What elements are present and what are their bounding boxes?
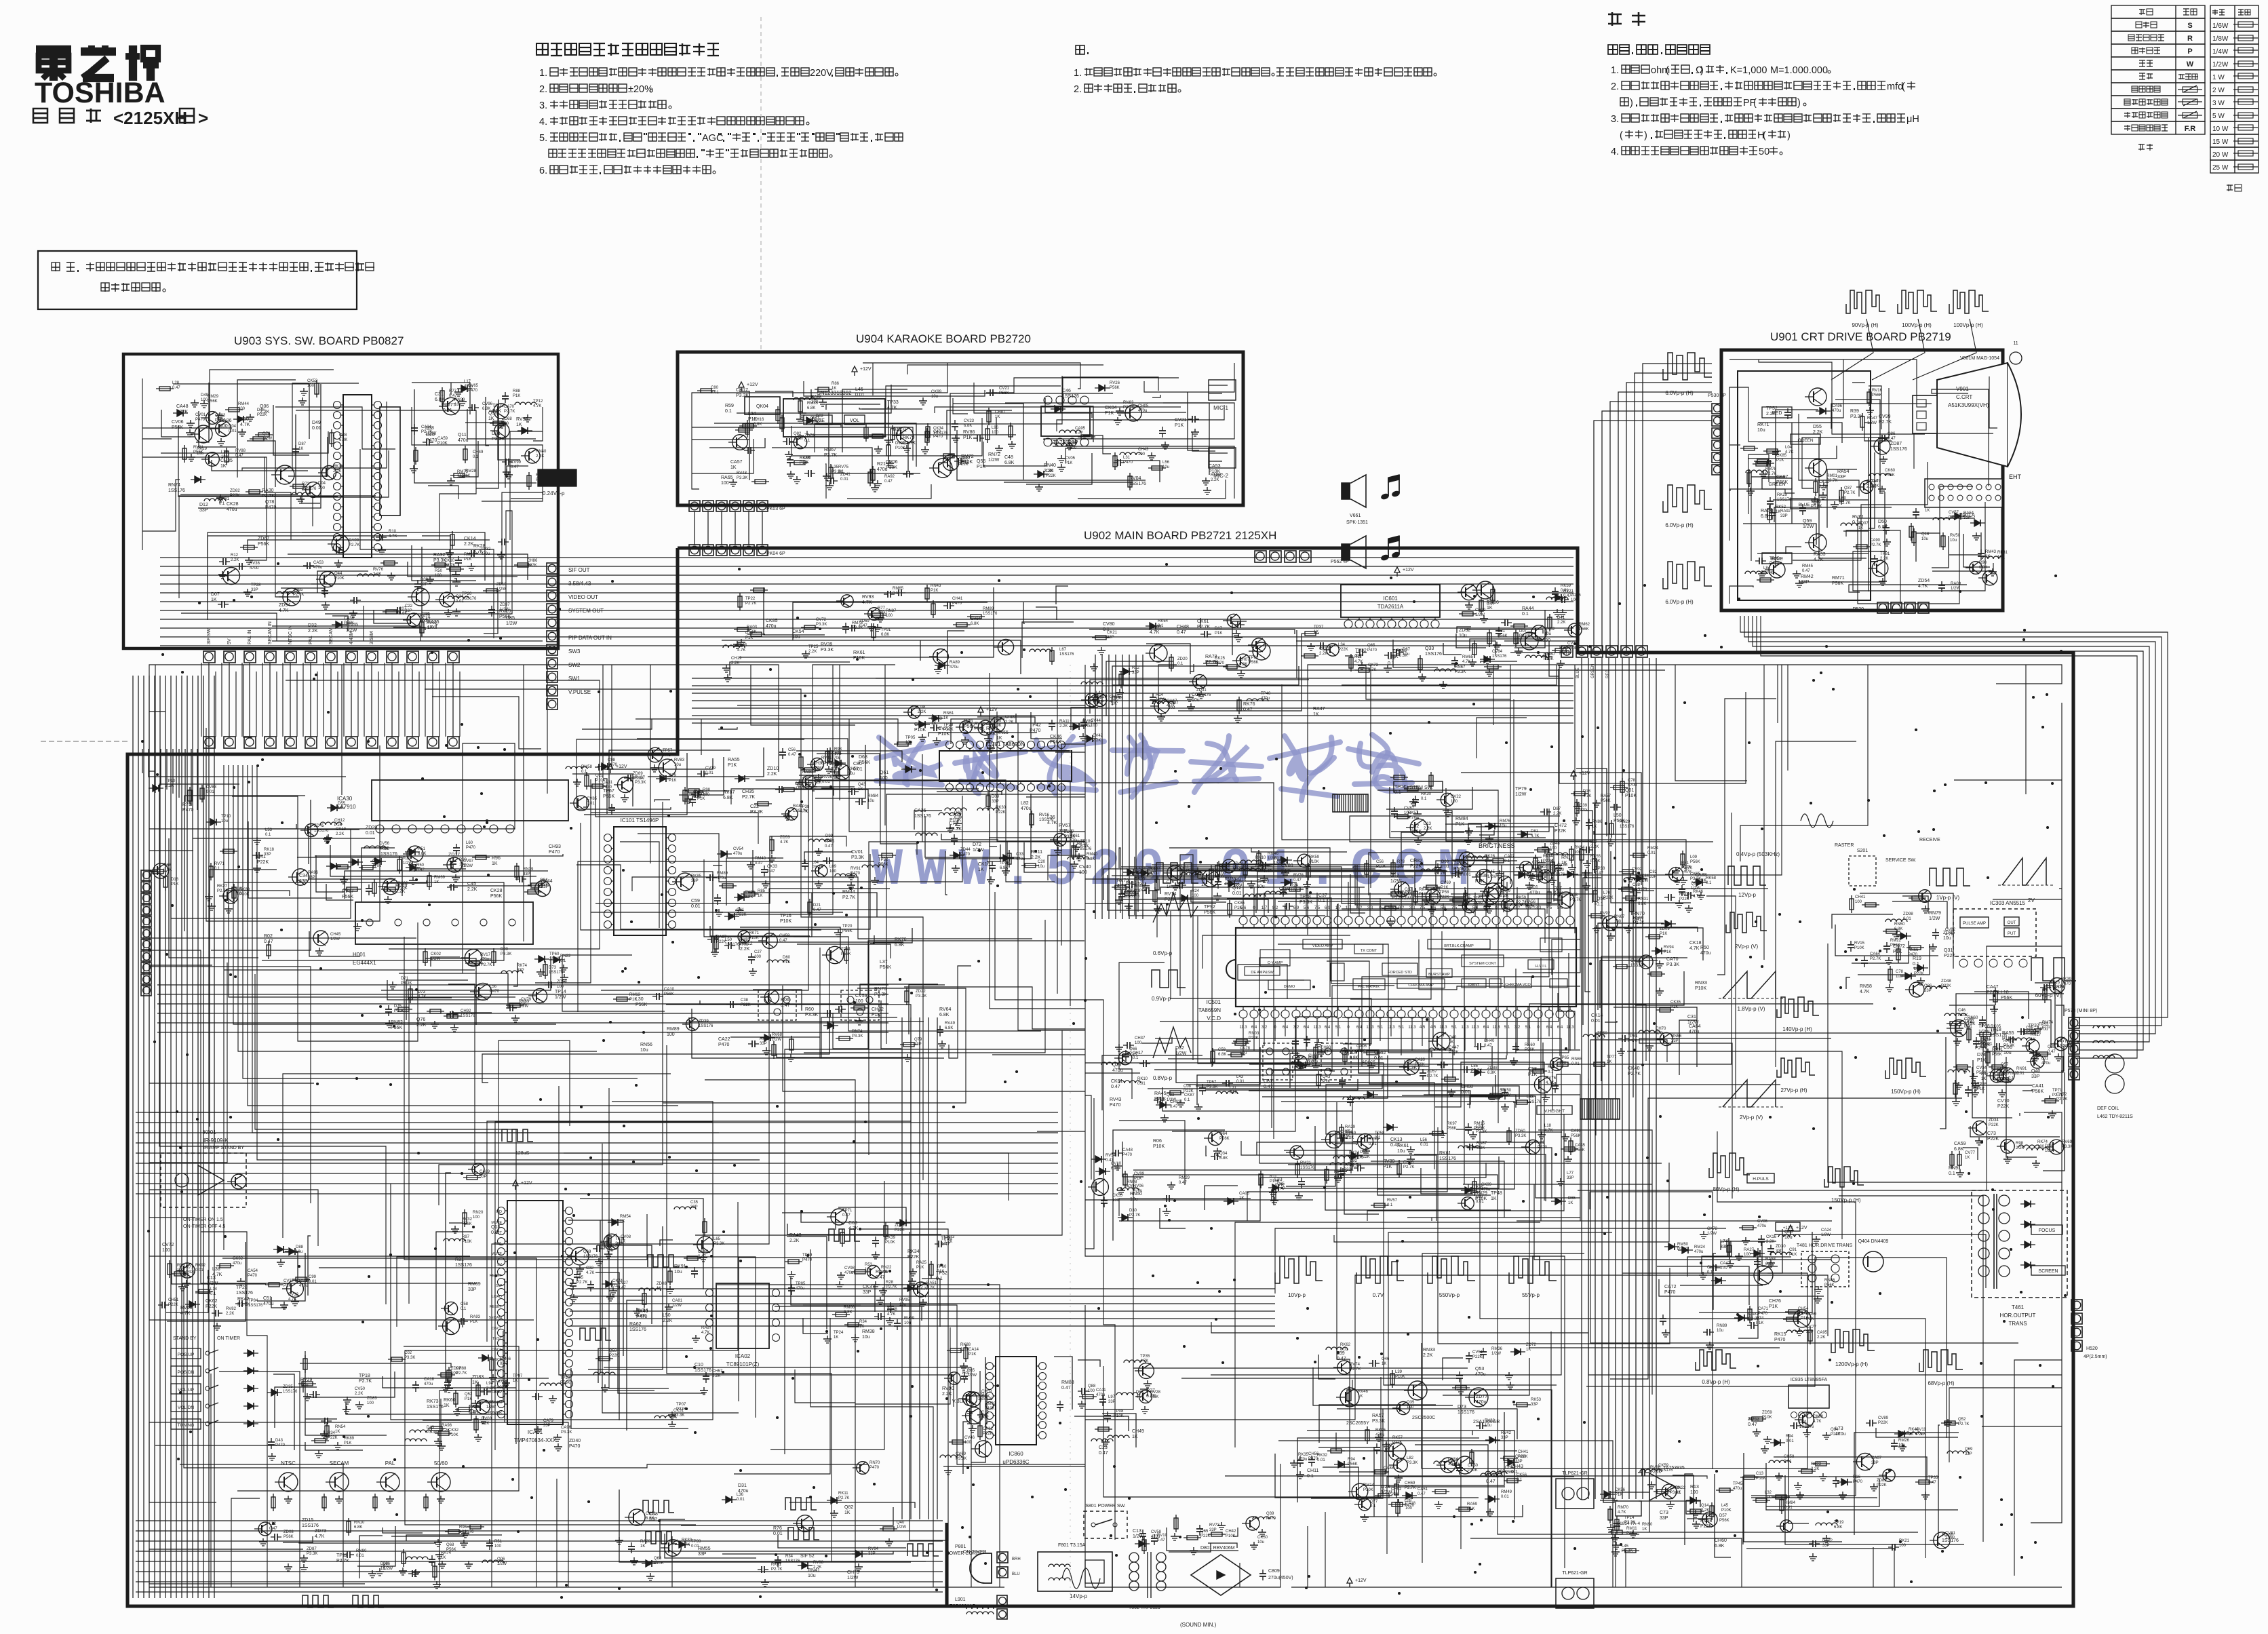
svg-text:RM38: RM38 xyxy=(862,1329,875,1334)
svg-text:P10K: P10K xyxy=(1695,986,1706,991)
svg-text:0.1: 0.1 xyxy=(1913,962,1919,967)
svg-text:100: 100 xyxy=(1496,891,1504,895)
svg-text:CA41: CA41 xyxy=(2032,1084,2044,1089)
svg-text:RN10: RN10 xyxy=(1255,856,1266,860)
svg-text:(: ( xyxy=(1620,130,1623,141)
svg-text:1SS176: 1SS176 xyxy=(1059,653,1074,657)
svg-text:TP99: TP99 xyxy=(691,1540,701,1544)
svg-text:33P: 33P xyxy=(468,1287,477,1292)
svg-text:RM69: RM69 xyxy=(468,1282,481,1287)
svg-text:CV22: CV22 xyxy=(1451,795,1462,799)
svg-text:Q23: Q23 xyxy=(1112,1063,1121,1068)
svg-text:14Vp-p: 14Vp-p xyxy=(1070,1593,1087,1599)
svg-text:33P: 33P xyxy=(1965,1452,1972,1456)
svg-text:ICV01 TA8690N: ICV01 TA8690N xyxy=(985,741,1025,747)
svg-text:L56: L56 xyxy=(490,985,497,989)
svg-text:P56K: P56K xyxy=(1992,1053,2002,1057)
svg-text:1/2W: 1/2W xyxy=(1167,1098,1176,1102)
svg-text:V661: V661 xyxy=(1350,513,1361,518)
svg-text:CA47: CA47 xyxy=(1987,985,1999,990)
svg-text:L45: L45 xyxy=(1622,1544,1629,1549)
svg-text:ZD59: ZD59 xyxy=(1762,1411,1772,1415)
svg-text:C46: C46 xyxy=(1062,389,1071,393)
svg-text:R11: R11 xyxy=(1270,1175,1277,1179)
svg-text:CK92: CK92 xyxy=(233,1257,243,1261)
svg-text:RV39: RV39 xyxy=(821,642,832,647)
svg-text:RN46: RN46 xyxy=(1824,1279,1835,1283)
svg-text:CA10: CA10 xyxy=(664,988,675,992)
svg-text:CA54: CA54 xyxy=(248,1269,258,1273)
svg-text:LOAD: LOAD xyxy=(492,1295,502,1299)
svg-text:Q57: Q57 xyxy=(2001,1063,2009,1067)
svg-text:P3.3K: P3.3K xyxy=(404,1356,415,1360)
svg-text:1SS176: 1SS176 xyxy=(699,1024,713,1028)
svg-text:L45: L45 xyxy=(1721,1504,1729,1508)
svg-text:0.1: 0.1 xyxy=(1177,662,1184,666)
svg-text:CV05: CV05 xyxy=(1065,456,1076,461)
svg-text:+12V: +12V xyxy=(747,383,758,387)
svg-text:CK28: CK28 xyxy=(227,502,239,507)
svg-text:RM36: RM36 xyxy=(1491,1347,1503,1351)
svg-text:0.47: 0.47 xyxy=(1417,1492,1426,1496)
svg-text:RN56: RN56 xyxy=(640,1043,652,1047)
svg-text:L94: L94 xyxy=(486,1382,494,1386)
svg-text:P56K: P56K xyxy=(1219,1137,1230,1141)
svg-text:33P: 33P xyxy=(691,879,699,883)
svg-text:TP14: TP14 xyxy=(1624,1516,1635,1520)
svg-text:P1K: P1K xyxy=(1893,950,1902,954)
svg-text:TP36: TP36 xyxy=(1000,861,1010,865)
svg-text:CV42: CV42 xyxy=(1093,734,1103,738)
svg-text:0.01: 0.01 xyxy=(229,429,237,433)
svg-text:CV72: CV72 xyxy=(162,1243,174,1247)
svg-text:P56K: P56K xyxy=(1579,627,1589,631)
svg-text:H.PULS: H.PULS xyxy=(1753,1177,1769,1182)
svg-text:1SS176: 1SS176 xyxy=(1300,1166,1315,1170)
svg-text:1/2W: 1/2W xyxy=(967,1374,977,1378)
svg-text:D18: D18 xyxy=(2045,1144,2053,1148)
svg-text:L39: L39 xyxy=(1395,1370,1403,1374)
svg-text:R06: R06 xyxy=(1153,1139,1162,1144)
svg-text:CV02: CV02 xyxy=(1632,868,1643,872)
svg-text:Q84: Q84 xyxy=(1831,1428,1839,1432)
svg-text:2.2K: 2.2K xyxy=(467,887,477,892)
svg-text:RN43: RN43 xyxy=(931,584,941,588)
svg-text:P1K: P1K xyxy=(1769,1304,1778,1309)
svg-text:1SS176: 1SS176 xyxy=(1890,447,1907,452)
svg-text:GREEN: GREEN xyxy=(1591,664,1595,678)
svg-text:D87: D87 xyxy=(298,442,307,446)
svg-text:27Vp-p (H): 27Vp-p (H) xyxy=(1780,1087,1807,1093)
svg-text:CH86: CH86 xyxy=(527,559,538,563)
svg-text:P10K: P10K xyxy=(1763,571,1774,575)
svg-text:SERVICE SW.: SERVICE SW. xyxy=(1885,858,1916,863)
svg-text:CH88: CH88 xyxy=(456,1367,467,1371)
svg-text:BURST AMP: BURST AMP xyxy=(1428,973,1450,977)
svg-text:CA59: CA59 xyxy=(437,437,448,441)
svg-text:P3.3K: P3.3K xyxy=(1811,505,1822,509)
svg-text:RV68: RV68 xyxy=(772,1033,783,1037)
svg-text:CK81: CK81 xyxy=(1111,1079,1123,1084)
svg-text:P22K: P22K xyxy=(257,860,269,865)
svg-text:RV15: RV15 xyxy=(1854,941,1865,946)
svg-text:CK13: CK13 xyxy=(1390,1137,1403,1142)
svg-text:0.01: 0.01 xyxy=(1441,865,1449,869)
svg-text:6.8K: 6.8K xyxy=(1004,461,1015,465)
svg-text:T481 HOR.DRIVE TRANS: T481 HOR.DRIVE TRANS xyxy=(1797,1243,1853,1248)
svg-text:RM58: RM58 xyxy=(581,765,593,769)
svg-text:RK27: RK27 xyxy=(217,884,228,889)
svg-text:+12V: +12V xyxy=(860,367,872,372)
svg-text:R12: R12 xyxy=(231,553,239,558)
svg-text:P1K: P1K xyxy=(931,589,938,593)
svg-text:): ) xyxy=(1700,65,1704,76)
svg-text:10u: 10u xyxy=(674,1270,682,1275)
svg-text:2.2K: 2.2K xyxy=(663,1319,673,1323)
svg-text:1 W: 1 W xyxy=(2212,74,2225,81)
svg-text:CA70: CA70 xyxy=(504,405,515,409)
svg-text:RN76: RN76 xyxy=(874,987,886,992)
svg-text:R53: R53 xyxy=(865,1263,873,1267)
svg-text:C36: C36 xyxy=(2003,1045,2012,1050)
svg-text:P1K: P1K xyxy=(1230,1091,1237,1095)
svg-text:RN89: RN89 xyxy=(1717,1324,1727,1328)
svg-text:RN74: RN74 xyxy=(852,1030,863,1034)
svg-text:1K: 1K xyxy=(640,1544,645,1549)
svg-text:Q06: Q06 xyxy=(260,404,269,409)
svg-text:TP68: TP68 xyxy=(1978,1024,1990,1029)
svg-text:0.47: 0.47 xyxy=(825,844,833,849)
svg-text:TP10: TP10 xyxy=(221,815,231,819)
svg-text:0.1: 0.1 xyxy=(1394,790,1401,795)
svg-text:P56K: P56K xyxy=(1249,661,1259,665)
svg-text:P3.3K: P3.3K xyxy=(736,393,749,398)
svg-text:1/2W: 1/2W xyxy=(897,1525,906,1530)
svg-text:100: 100 xyxy=(721,481,729,486)
svg-text:RA93: RA93 xyxy=(470,1315,481,1319)
svg-text:0.47: 0.47 xyxy=(1802,569,1810,573)
svg-text:D02: D02 xyxy=(954,811,962,815)
svg-text:2.2K: 2.2K xyxy=(2016,1146,2024,1150)
svg-text:1K: 1K xyxy=(943,716,948,720)
svg-text:1K: 1K xyxy=(1526,1348,1531,1352)
svg-text:R: R xyxy=(2187,35,2193,43)
svg-text:Q404 DN4409: Q404 DN4409 xyxy=(1858,1239,1889,1244)
svg-text:P3.3K: P3.3K xyxy=(851,855,864,860)
svg-text:1SS176: 1SS176 xyxy=(695,1368,711,1373)
svg-text:Q31: Q31 xyxy=(1944,948,1953,953)
svg-text:RA25: RA25 xyxy=(916,1261,927,1265)
svg-text:RED: RED xyxy=(1772,411,1782,416)
svg-text:P1K: P1K xyxy=(1660,932,1667,936)
svg-text:33P: 33P xyxy=(264,853,271,857)
svg-text:P530 6P: P530 6P xyxy=(1708,393,1726,398)
svg-text:RV94: RV94 xyxy=(1664,946,1675,950)
svg-text:CK16: CK16 xyxy=(1766,1235,1777,1239)
svg-text:100: 100 xyxy=(318,486,326,490)
svg-text:P56K: P56K xyxy=(842,929,853,933)
svg-text:TP40: TP40 xyxy=(1261,692,1271,696)
svg-text:CH42: CH42 xyxy=(1226,1530,1236,1534)
svg-text:0.47: 0.47 xyxy=(859,624,867,628)
svg-text:P3.3K: P3.3K xyxy=(1396,654,1407,658)
svg-text:4.7K: 4.7K xyxy=(1689,946,1700,951)
svg-text:P56K: P56K xyxy=(1505,1471,1515,1475)
svg-text:4.7K: 4.7K xyxy=(586,1271,594,1275)
svg-text:L901: L901 xyxy=(955,1597,966,1602)
svg-text:L82: L82 xyxy=(1407,1456,1414,1460)
svg-text:C38: C38 xyxy=(1632,883,1641,887)
svg-text:1/2W: 1/2W xyxy=(1821,1233,1831,1237)
svg-text:T461: T461 xyxy=(2012,1304,2025,1310)
svg-text:HD: HD xyxy=(496,1380,502,1384)
svg-text:100: 100 xyxy=(557,985,564,989)
svg-text:RN67: RN67 xyxy=(1455,665,1466,669)
svg-text:6.8K: 6.8K xyxy=(1894,927,1902,931)
svg-text:TP97: TP97 xyxy=(513,1374,523,1378)
svg-text:+12V: +12V xyxy=(1403,568,1414,572)
svg-text:RN22: RN22 xyxy=(881,1266,892,1270)
svg-text:0.01: 0.01 xyxy=(691,904,701,909)
svg-text:RK60: RK60 xyxy=(1525,1043,1536,1047)
svg-text:TP12: TP12 xyxy=(336,1553,348,1558)
svg-text:RV49: RV49 xyxy=(945,1022,956,1026)
svg-text:L30: L30 xyxy=(636,997,644,1002)
svg-text:P10K: P10K xyxy=(334,577,345,581)
svg-text:CV79: CV79 xyxy=(521,998,532,1002)
svg-text:<2125XH: <2125XH xyxy=(113,108,187,128)
svg-text:P3.3K: P3.3K xyxy=(561,1431,572,1435)
svg-text:RM55: RM55 xyxy=(698,1547,711,1551)
svg-text:RK61: RK61 xyxy=(853,650,865,655)
svg-text:10u: 10u xyxy=(674,763,681,767)
svg-text:P56K: P56K xyxy=(1690,860,1700,864)
svg-text:P470: P470 xyxy=(1122,1153,1133,1157)
svg-text:6.8K: 6.8K xyxy=(895,943,905,948)
svg-text:2.2K: 2.2K xyxy=(813,1565,821,1570)
svg-text:BLUE: BLUE xyxy=(1799,503,1811,507)
svg-text:RA47: RA47 xyxy=(1867,416,1878,421)
svg-text:Q52: Q52 xyxy=(1958,1418,1966,1422)
svg-text:ZD87: ZD87 xyxy=(307,1547,317,1551)
svg-text:6.8K: 6.8K xyxy=(881,633,889,637)
svg-text:470u: 470u xyxy=(250,566,258,570)
svg-text:RK58: RK58 xyxy=(1706,876,1717,880)
svg-text:FOCUS: FOCUS xyxy=(2039,1228,2056,1233)
svg-text:ZD82: ZD82 xyxy=(230,489,240,493)
svg-text:C08: C08 xyxy=(1184,1085,1192,1089)
svg-text:2.2K: 2.2K xyxy=(231,558,239,562)
svg-text:Q99: Q99 xyxy=(1070,442,1078,446)
svg-text:TP31: TP31 xyxy=(615,1237,625,1241)
svg-text:P10K: P10K xyxy=(853,656,865,661)
svg-text:1K: 1K xyxy=(832,387,836,391)
svg-text:1/2W: 1/2W xyxy=(383,1567,393,1571)
svg-text:2.2K: 2.2K xyxy=(767,772,777,777)
svg-text:ZD48: ZD48 xyxy=(1941,979,1951,984)
svg-text:D72: D72 xyxy=(973,842,981,847)
svg-text:VOL.DN: VOL.DN xyxy=(178,1405,195,1410)
svg-text:C10: C10 xyxy=(695,1363,703,1367)
svg-text:P470: P470 xyxy=(1123,461,1133,465)
svg-text:ZD22: ZD22 xyxy=(916,990,926,994)
svg-text:0.01: 0.01 xyxy=(206,790,214,794)
svg-text:IC601: IC601 xyxy=(1383,596,1398,602)
svg-text:P562 4P: P562 4P xyxy=(1331,560,1349,564)
svg-text:3.: 3. xyxy=(1611,114,1619,125)
svg-text:PK04 6P: PK04 6P xyxy=(766,551,785,556)
svg-text:HOR.OUTPUT: HOR.OUTPUT xyxy=(2000,1312,2036,1319)
svg-text:3.58M: 3.58M xyxy=(370,631,374,644)
svg-text:2.2K: 2.2K xyxy=(808,650,817,654)
svg-text:RK74: RK74 xyxy=(517,964,528,968)
svg-text:P2.7K: P2.7K xyxy=(745,602,756,606)
svg-text:2.2K: 2.2K xyxy=(1044,469,1054,473)
svg-text:CA11: CA11 xyxy=(1096,1388,1106,1393)
svg-text:CA57: CA57 xyxy=(730,460,743,465)
svg-text:P3.3K: P3.3K xyxy=(1670,1491,1681,1495)
svg-text:10 W: 10 W xyxy=(2212,125,2229,133)
svg-text:POWER CORD: POWER CORD xyxy=(946,1551,979,1556)
svg-text:RM26: RM26 xyxy=(1898,1439,1910,1443)
svg-text:4.7K: 4.7K xyxy=(737,648,745,653)
svg-text:C80: C80 xyxy=(711,386,719,390)
svg-text:CH62: CH62 xyxy=(872,1007,884,1012)
svg-text:33P: 33P xyxy=(1871,1461,1879,1465)
svg-text:RV91: RV91 xyxy=(850,867,861,871)
svg-text:470u: 470u xyxy=(1689,1030,1700,1034)
svg-text:P22K: P22K xyxy=(1989,1123,1999,1127)
svg-text:RV67: RV67 xyxy=(1059,823,1070,828)
svg-text:IC303 AN5515: IC303 AN5515 xyxy=(1990,900,2026,906)
svg-text:CH41: CH41 xyxy=(1855,895,1866,899)
svg-text:Q64: Q64 xyxy=(1219,1132,1228,1136)
svg-text:CV96: CV96 xyxy=(482,402,493,406)
svg-text:GREEN: GREEN xyxy=(1797,438,1813,443)
svg-text:BRIGT.NESS: BRIGT.NESS xyxy=(1479,842,1515,849)
svg-text:RN40: RN40 xyxy=(536,450,547,454)
svg-text:0.8Vp-p: 0.8Vp-p xyxy=(1153,1075,1173,1081)
svg-text:33P: 33P xyxy=(1209,1528,1217,1532)
svg-text:RA03: RA03 xyxy=(747,625,758,629)
svg-text:P22K: P22K xyxy=(1916,1433,1926,1437)
svg-text:RA33: RA33 xyxy=(1814,552,1826,557)
svg-text:BLUE: BLUE xyxy=(1576,667,1580,678)
svg-text:RK62: RK62 xyxy=(1340,1343,1351,1347)
svg-text:D73: D73 xyxy=(549,966,557,970)
svg-text:1K: 1K xyxy=(978,868,984,872)
svg-text:RK55: RK55 xyxy=(1590,855,1601,859)
svg-text:SIF OUT: SIF OUT xyxy=(568,567,590,573)
svg-text:100: 100 xyxy=(1997,556,2005,560)
svg-text:15 W: 15 W xyxy=(2212,138,2229,146)
svg-text:IC835 LT8M85FA: IC835 LT8M85FA xyxy=(1791,1378,1828,1382)
svg-text:TP58: TP58 xyxy=(1439,891,1449,895)
svg-text:R39: R39 xyxy=(1850,409,1859,414)
svg-text:Q68: Q68 xyxy=(654,1557,662,1561)
svg-text:CV54: CV54 xyxy=(733,847,744,851)
svg-text:D87: D87 xyxy=(1553,807,1561,811)
svg-text:P3.3K: P3.3K xyxy=(1622,1549,1632,1553)
svg-text:CV72: CV72 xyxy=(938,726,950,731)
svg-text:ON-TIMER OFF 4.5: ON-TIMER OFF 4.5 xyxy=(183,1224,225,1229)
svg-text:P10K: P10K xyxy=(462,1240,472,1244)
svg-text:CH76: CH76 xyxy=(1769,1299,1781,1304)
svg-text:CK54: CK54 xyxy=(792,629,804,634)
svg-text:6.8K: 6.8K xyxy=(435,397,445,402)
svg-text:P56K: P56K xyxy=(1110,386,1120,390)
svg-text:CV50: CV50 xyxy=(355,1387,366,1391)
svg-text:P22K: P22K xyxy=(1997,1104,2009,1109)
svg-text:CA64: CA64 xyxy=(1689,1024,1701,1029)
svg-text:D49: D49 xyxy=(312,421,321,425)
svg-text:CK40: CK40 xyxy=(1628,1066,1640,1071)
svg-text:RV26: RV26 xyxy=(1110,381,1120,385)
svg-text:100: 100 xyxy=(1855,900,1862,904)
svg-text:TDA2611A: TDA2611A xyxy=(1377,604,1404,610)
svg-text:FORCED STD: FORCED STD xyxy=(1388,971,1412,975)
svg-text:P10K: P10K xyxy=(1363,1488,1373,1492)
svg-text:0.01: 0.01 xyxy=(1903,917,1911,921)
svg-text:1/2W: 1/2W xyxy=(1475,613,1485,617)
svg-text:P1K: P1K xyxy=(344,1441,351,1445)
svg-text:C33: C33 xyxy=(1016,853,1024,857)
svg-text:IC501: IC501 xyxy=(1207,999,1221,1005)
svg-text:33P: 33P xyxy=(1671,1039,1679,1043)
svg-text:MIC-1: MIC-1 xyxy=(1213,405,1228,411)
svg-text:P1K: P1K xyxy=(1615,1493,1622,1497)
svg-text:CV77: CV77 xyxy=(1965,1151,1976,1155)
svg-text:Q59: Q59 xyxy=(1803,519,1812,524)
svg-text:470u: 470u xyxy=(1150,872,1158,876)
svg-text:RA97: RA97 xyxy=(701,1326,712,1330)
svg-text:0.47: 0.47 xyxy=(1177,630,1186,635)
svg-text:0.1: 0.1 xyxy=(1421,797,1427,801)
svg-text:470u: 470u xyxy=(1700,951,1711,956)
svg-text:P56K: P56K xyxy=(1447,1127,1457,1131)
svg-text:2.2K: 2.2K xyxy=(1424,827,1432,831)
svg-text:Q69: Q69 xyxy=(1965,1447,1973,1452)
svg-text:P1K: P1K xyxy=(513,394,520,398)
svg-text:470u: 470u xyxy=(1757,1224,1766,1228)
svg-text:OSC1: OSC1 xyxy=(492,1358,502,1362)
svg-text:CV51: CV51 xyxy=(1472,1350,1483,1355)
svg-text:0.47: 0.47 xyxy=(1293,878,1302,882)
svg-text:CH51: CH51 xyxy=(168,1298,179,1302)
svg-text:2.2K: 2.2K xyxy=(308,629,318,634)
svg-text:TP57: TP57 xyxy=(663,749,673,753)
svg-text:1K: 1K xyxy=(1965,1156,1970,1160)
svg-text:R14: R14 xyxy=(1156,693,1164,697)
svg-text:TLP621-GR: TLP621-GR xyxy=(1562,1571,1587,1576)
svg-text:RK64: RK64 xyxy=(1158,619,1169,623)
svg-text:100Vp-p (H): 100Vp-p (H) xyxy=(1902,322,1932,328)
svg-text:1/2W: 1/2W xyxy=(1215,874,1224,878)
svg-text:D17: D17 xyxy=(1215,627,1223,631)
svg-text:1K: 1K xyxy=(834,1336,838,1340)
svg-text:RM70: RM70 xyxy=(1618,1506,1629,1510)
svg-text:CV06: CV06 xyxy=(172,420,184,425)
svg-text:D90: D90 xyxy=(501,948,509,952)
svg-text:1K: 1K xyxy=(844,1511,850,1515)
svg-text:RK15: RK15 xyxy=(1774,1332,1786,1337)
svg-text:P2.7K: P2.7K xyxy=(504,410,515,414)
svg-text:CHROMA AMP: CHROMA AMP xyxy=(1408,984,1434,988)
svg-text:1/6W: 1/6W xyxy=(2212,22,2229,30)
svg-text:10u: 10u xyxy=(1459,634,1467,638)
svg-text:470u: 470u xyxy=(1261,697,1270,701)
svg-text:P22K: P22K xyxy=(1472,1355,1483,1359)
